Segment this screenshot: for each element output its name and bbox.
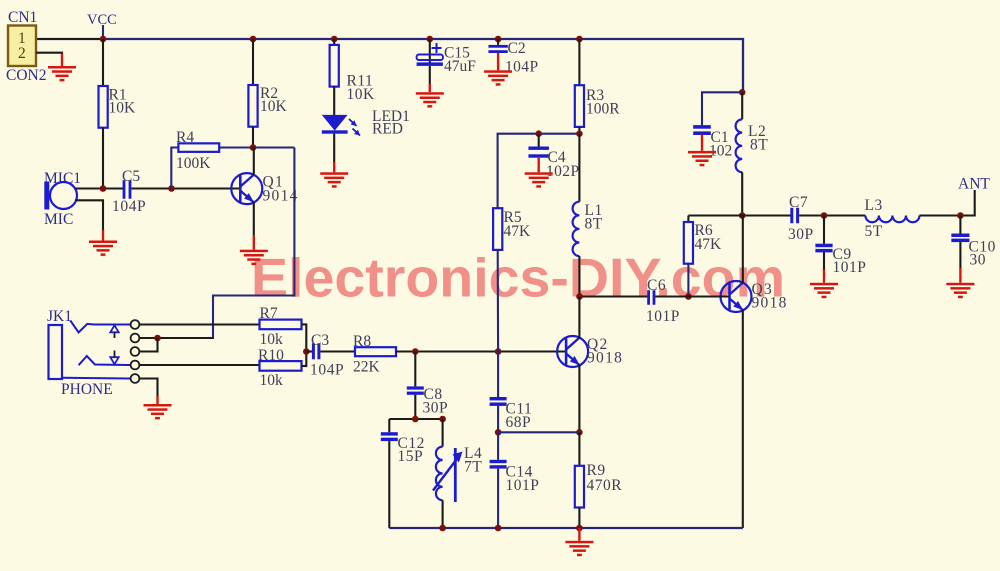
svg-text:104P: 104P [112,198,146,215]
svg-text:22K: 22K [353,359,381,376]
svg-text:MIC1: MIC1 [44,170,81,187]
svg-text:L3: L3 [865,197,883,214]
svg-text:CN1: CN1 [8,9,37,26]
svg-text:JK1: JK1 [47,308,72,325]
svg-text:VCC: VCC [87,12,117,28]
svg-text:R10: R10 [258,347,284,364]
svg-text:100K: 100K [176,155,211,172]
svg-text:7T: 7T [464,459,482,476]
svg-text:9018: 9018 [752,295,788,312]
svg-text:30P: 30P [423,400,449,417]
svg-text:MIC: MIC [44,211,73,228]
svg-text:CON2: CON2 [6,67,46,84]
svg-text:47K: 47K [695,236,723,253]
svg-text:47uF: 47uF [444,58,476,75]
svg-text:8T: 8T [750,137,768,154]
svg-text:10K: 10K [109,100,137,117]
svg-text:470R: 470R [587,477,623,494]
svg-text:R7: R7 [260,305,278,322]
svg-text:47K: 47K [504,223,532,240]
svg-text:PHONE: PHONE [61,381,113,398]
svg-text:C7: C7 [789,194,808,211]
svg-text:101P: 101P [506,477,540,494]
svg-text:C5: C5 [122,168,140,185]
svg-text:C6: C6 [647,277,666,294]
svg-text:R4: R4 [176,129,194,146]
svg-text:10K: 10K [260,98,288,115]
svg-text:2: 2 [18,45,26,62]
svg-text:30P: 30P [788,226,814,243]
svg-text:101P: 101P [833,259,867,276]
svg-text:ANT: ANT [958,176,990,193]
svg-text:15P: 15P [398,448,424,465]
svg-text:30: 30 [970,252,987,269]
svg-text:9018: 9018 [587,350,623,367]
svg-text:8T: 8T [585,216,603,233]
svg-text:C2: C2 [508,40,526,57]
svg-text:100R: 100R [586,101,620,118]
svg-text:Electronics-DIY.com: Electronics-DIY.com [251,247,785,309]
svg-text:10k: 10k [260,372,284,389]
svg-text:104P: 104P [310,362,344,379]
svg-text:RED: RED [372,121,403,138]
svg-text:R8: R8 [353,333,371,350]
svg-text:102P: 102P [546,163,579,180]
svg-text:104P: 104P [505,59,538,76]
svg-text:9014: 9014 [263,188,299,205]
svg-text:5T: 5T [865,223,883,240]
svg-text:101P: 101P [646,308,680,325]
svg-text:68P: 68P [506,414,532,431]
svg-text:C3: C3 [311,332,329,349]
svg-text:10k: 10k [260,331,284,348]
svg-text:10K: 10K [347,86,376,103]
